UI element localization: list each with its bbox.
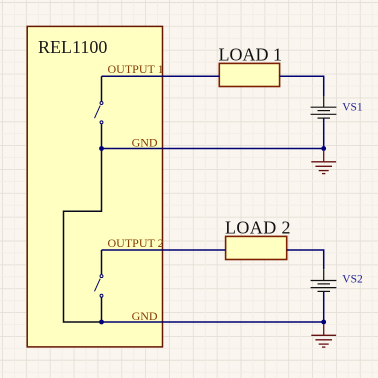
svg-text:VS1: VS1 bbox=[342, 102, 363, 114]
svg-text:LOAD 2: LOAD 2 bbox=[225, 218, 291, 238]
svg-text:LOAD 1: LOAD 1 bbox=[219, 45, 283, 65]
svg-text:OUTPUT 2: OUTPUT 2 bbox=[108, 236, 164, 250]
svg-text:OUTPUT 1: OUTPUT 1 bbox=[108, 62, 164, 76]
svg-text:GND: GND bbox=[132, 309, 158, 323]
svg-text:REL1100: REL1100 bbox=[38, 37, 107, 57]
svg-text:GND: GND bbox=[132, 135, 158, 149]
svg-text:VS2: VS2 bbox=[342, 273, 363, 285]
